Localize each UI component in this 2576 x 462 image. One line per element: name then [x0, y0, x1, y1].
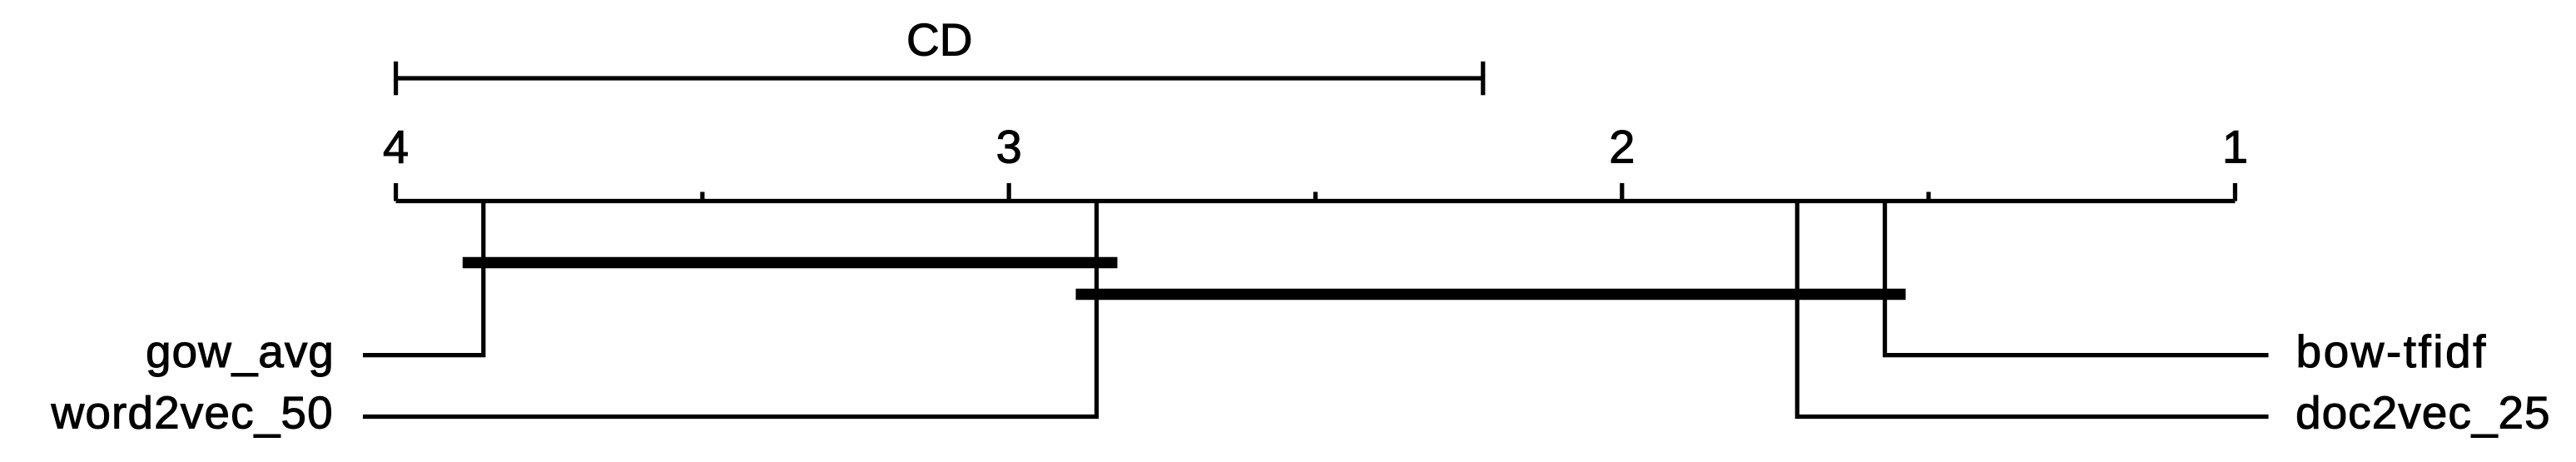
svg-text:4: 4 — [383, 121, 409, 173]
CD ruler left serif — [394, 62, 398, 96]
doc2vec_25 connector — [1797, 201, 2268, 417]
word2vec_50 connector — [363, 201, 1097, 417]
major tick 1 — [2233, 183, 2237, 201]
CD ruler line — [396, 76, 1483, 80]
bow-tfidf connector — [1885, 201, 2269, 355]
svg-text:1: 1 — [2222, 121, 2248, 173]
minor tick 2.5 — [1313, 192, 1318, 201]
major tick 2 — [1620, 183, 1624, 201]
axis line — [396, 199, 2236, 203]
svg-text:bow-tfidf: bow-tfidf — [2296, 325, 2488, 377]
major tick 3 — [1007, 183, 1011, 201]
svg-text:word2vec_50: word2vec_50 — [51, 387, 334, 439]
CD ruler right serif — [1481, 62, 1485, 96]
major tick 4 — [394, 183, 398, 201]
minor tick 3.5 — [700, 192, 704, 201]
gow_avg connector — [363, 201, 484, 355]
svg-text:CD: CD — [906, 14, 972, 66]
clique bar 1 (gow_avg - word2vec_50) — [463, 257, 1118, 269]
clique bar 2 (word2vec_50 - bow-tfidf) — [1076, 289, 1906, 301]
svg-text:2: 2 — [1609, 121, 1635, 173]
svg-text:3: 3 — [996, 121, 1022, 173]
svg-text:doc2vec_25: doc2vec_25 — [2296, 387, 2551, 439]
svg-text:gow_avg: gow_avg — [146, 325, 335, 377]
minor tick 1.5 — [1927, 192, 1931, 201]
